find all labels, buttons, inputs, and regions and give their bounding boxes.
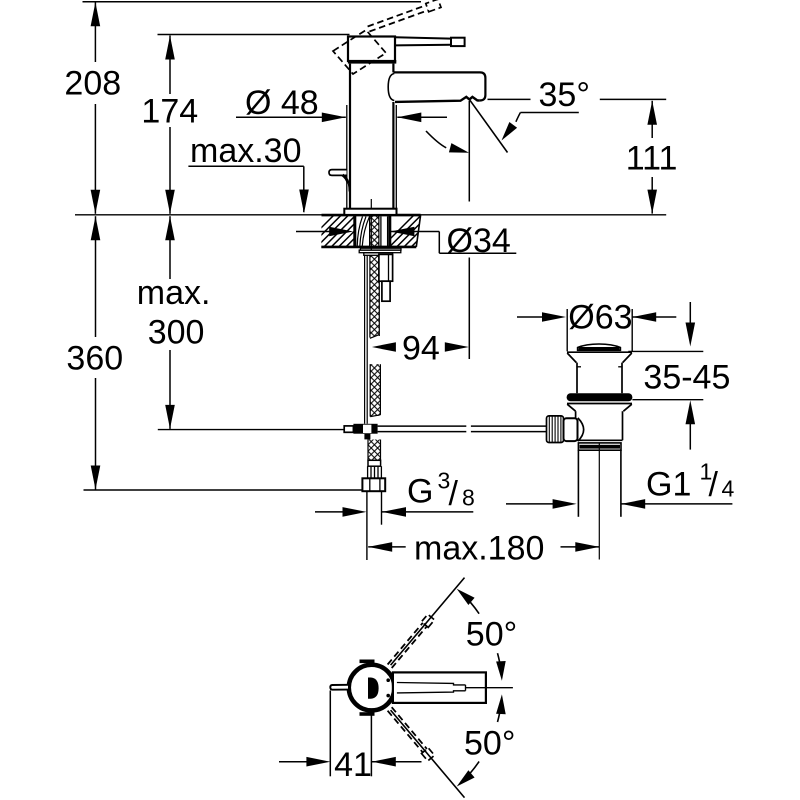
35deg stream line [470, 100, 508, 152]
50deg arc upper [470, 602, 479, 613]
dimension D48 [236, 116, 346, 118]
top view: dashed lever upper [388, 623, 427, 668]
faucet body inner walls [349, 64, 351, 209]
waste centerline [598, 443, 600, 560]
flexible hose lower segment [368, 440, 381, 461]
svg-text:max.: max. [137, 274, 211, 312]
svg-text:Ø34: Ø34 [447, 222, 511, 260]
svg-text:max.30: max.30 [190, 132, 302, 170]
waste flange [567, 351, 632, 353]
dimension 41 [329, 691, 331, 777]
dimension max.180 [368, 546, 406, 548]
waste plug [578, 344, 621, 350]
dimension 111 [651, 101, 653, 138]
extension line 174 [158, 34, 350, 36]
dimension D63 [517, 316, 544, 318]
rod knob (knurled) [547, 416, 564, 443]
waste body lower [575, 411, 577, 440]
extension line max300 bottom (rod level) [158, 429, 344, 431]
spout [393, 72, 485, 95]
dimension G1 1/4 [506, 503, 553, 505]
top view: spout outlet tab [330, 685, 348, 690]
top view: lever axis line upper [391, 578, 465, 666]
braided hose in shank [370, 216, 379, 248]
waste body bottom [576, 439, 623, 441]
svg-text:35-45: 35-45 [643, 358, 730, 396]
dimension 360 [95, 216, 97, 337]
svg-text:50°: 50° [466, 616, 517, 654]
G3/8 nut [362, 478, 385, 491]
35deg leader curve [520, 112, 578, 114]
50deg arc lower [470, 762, 479, 773]
spout tip vertical extension [468, 101, 470, 202]
top view: lever body [393, 672, 486, 703]
faucet centerline [370, 199, 372, 250]
flexible hose upper segment [370, 255, 379, 336]
top view: cartridge hole [368, 678, 379, 699]
D63 extension lines [566, 309, 568, 351]
swivel arc arrow [426, 131, 446, 148]
svg-text:50°: 50° [464, 724, 515, 762]
ball joint arc [578, 418, 584, 441]
svg-text:300: 300 [148, 313, 205, 351]
dimension max300 [169, 216, 171, 279]
dimension 35-45 [689, 302, 691, 324]
dimension 94 [372, 342, 396, 352]
deck outline [322, 214, 421, 217]
dimension D34 [296, 231, 330, 233]
counter-top extension line [75, 214, 666, 216]
hose ferrule [368, 460, 381, 466]
dimension 174 [169, 36, 171, 95]
top view: body circle [349, 665, 395, 711]
horizontal pop-up rod [378, 425, 467, 427]
dashed head (raised position) [333, 30, 386, 74]
faucet outer sleeve [346, 105, 348, 209]
dimension G3/8 [315, 511, 343, 513]
pull-rod knob [329, 170, 347, 176]
svg-text:360: 360 [66, 339, 123, 377]
top view: screw dots [386, 678, 390, 682]
mounting nut [359, 250, 401, 253]
top view: mounting tabs [360, 659, 375, 663]
extension line 360 bottom [84, 489, 363, 491]
hose curves in shank [357, 217, 369, 247]
tailpipe nut [578, 443, 621, 450]
flexible hose mid segment [370, 364, 380, 416]
pop-up rod below deck [364, 255, 366, 423]
svg-text:G: G [407, 473, 433, 511]
svg-text:8: 8 [462, 485, 475, 511]
svg-text:/: / [709, 466, 719, 504]
top view: dashed lever lower [388, 707, 427, 752]
svg-text:208: 208 [64, 65, 121, 103]
svg-text:G1: G1 [646, 466, 691, 504]
svg-text:max.180: max.180 [414, 530, 544, 568]
tailpipe [577, 450, 579, 517]
svg-text:Ø 48: Ø 48 [245, 84, 319, 122]
svg-text:94: 94 [402, 330, 440, 368]
pop-up rod coupling [344, 426, 353, 432]
hose nipple ribs [367, 466, 369, 478]
extension line top (208) [83, 1, 422, 3]
second hose stub [379, 254, 393, 281]
lever handle [395, 37, 451, 38]
svg-text:Ø63: Ø63 [568, 298, 632, 336]
label max.30 leader [188, 165, 303, 167]
pop-up rod in shank [380, 217, 382, 247]
dashed lever (raised position) [368, 5, 429, 31]
cartridge head [348, 37, 395, 62]
top view: centerline [466, 687, 513, 689]
svg-text:35°: 35° [539, 76, 590, 114]
svg-text:111: 111 [626, 140, 678, 178]
svg-text:174: 174 [141, 92, 198, 130]
horseshoe washer [360, 248, 401, 250]
top view: lever rod inner [397, 683, 466, 693]
base flange [344, 209, 396, 215]
waste body upper [576, 363, 578, 394]
dimension 208 [94, 2, 96, 62]
waste lower flange [567, 403, 632, 405]
label 35deg underline [488, 98, 531, 100]
svg-text:4: 4 [722, 476, 735, 502]
deck hole walls [353, 215, 356, 247]
svg-text:41: 41 [334, 746, 372, 784]
G3/8 thread tube [366, 491, 368, 560]
svg-text:/: / [449, 475, 459, 513]
top view: lever axis line lower [391, 710, 465, 798]
waste seal ring [567, 393, 633, 401]
